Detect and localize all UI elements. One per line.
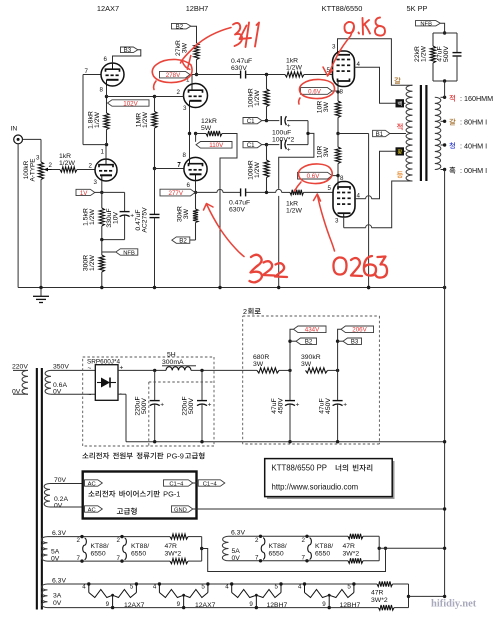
- svg-text:KT88/: KT88/: [91, 543, 109, 550]
- wire NFB tag: [440, 23, 444, 33]
- wire to KT88 lower pin5: [304, 191, 334, 193]
- svg-text:3: 3: [94, 179, 98, 186]
- svg-text:7: 7: [255, 555, 259, 562]
- resistor 12kR 5W: [196, 133, 201, 135]
- svg-text:8: 8: [340, 89, 344, 96]
- resistor 1.5kR 1/2W: [101, 192, 103, 208]
- svg-text:12BH7: 12BH7: [267, 602, 288, 609]
- svg-text:6550: 6550: [315, 551, 330, 558]
- svg-text:7: 7: [77, 555, 81, 562]
- svg-text:12kR: 12kR: [201, 118, 217, 125]
- svg-text:12AX7: 12AX7: [124, 602, 145, 609]
- svg-text:450V: 450V: [325, 398, 332, 414]
- heater KT88 3: [259, 535, 262, 538]
- triode 12BH7b: [184, 157, 207, 180]
- red circle 278V: [152, 59, 192, 89]
- svg-text:390kR: 390kR: [301, 354, 321, 361]
- capacitor 0.47uF AC275V: [150, 213, 160, 215]
- heater winding 6.3V 3A: [42, 584, 48, 608]
- red arrow to 0.6V lower and 0263: [318, 196, 335, 252]
- label 0 ohm: [449, 167, 455, 174]
- capacitor 100uF lower: [267, 144, 280, 146]
- svg-text:C1~4: C1~4: [203, 481, 218, 487]
- svg-text:PG-9: PG-9: [167, 452, 184, 461]
- resistor 10R 3W upper: [337, 92, 339, 101]
- triode 12BH7a: [184, 84, 208, 108]
- node 100uF mid: [306, 132, 309, 135]
- wire plate node: [190, 74, 240, 76]
- ground rail: [18, 287, 445, 289]
- svg-text:KTT88/6550: KTT88/6550: [322, 4, 363, 13]
- red note 0263: [333, 257, 346, 274]
- svg-text:: 80HM I: : 80HM I: [460, 118, 487, 127]
- svg-text:5: 5: [130, 584, 134, 591]
- node ground drop: [367, 286, 370, 289]
- svg-text:+: +: [208, 402, 212, 409]
- tag C1-4 outer: [193, 482, 198, 484]
- wire B2 node up: [290, 329, 294, 370]
- svg-text:5: 5: [201, 584, 205, 591]
- heater rail bottom small: [48, 607, 379, 609]
- PSU rail nodes: [153, 440, 156, 443]
- resistor 30kR 3W: [195, 192, 197, 209]
- svg-text:C1: C1: [247, 142, 255, 149]
- svg-text:~: ~: [88, 365, 92, 372]
- tag B2 supply: [288, 340, 291, 343]
- svg-text:4: 4: [298, 584, 302, 591]
- svg-text:12AX7: 12AX7: [195, 602, 216, 609]
- svg-text:6.3V: 6.3V: [52, 530, 66, 537]
- svg-text:5K PP: 5K PP: [407, 4, 428, 13]
- svg-text:8: 8: [183, 152, 187, 159]
- svg-text:0V: 0V: [54, 502, 63, 509]
- heater rail bottom right: [229, 560, 349, 562]
- svg-text:1/2W: 1/2W: [286, 208, 302, 215]
- node B2 supply: [288, 369, 291, 372]
- svg-text:6: 6: [104, 56, 108, 63]
- red circle 0.6V lower: [295, 164, 333, 191]
- svg-text:1kR: 1kR: [286, 201, 298, 208]
- wire 1MR node down: [154, 169, 156, 215]
- svg-text:6550: 6550: [269, 551, 284, 558]
- node C1 upper: [265, 119, 268, 122]
- svg-text:1/2W: 1/2W: [89, 208, 96, 224]
- svg-text:B2: B2: [305, 339, 313, 346]
- svg-text:5: 5: [347, 584, 351, 591]
- svg-text:3W*2: 3W*2: [343, 551, 360, 558]
- heater KT88 4: [305, 535, 308, 538]
- svg-text:NFB: NFB: [420, 22, 432, 28]
- wire 8ohm tap: [441, 120, 445, 122]
- svg-text:2: 2: [302, 537, 306, 544]
- resistor 100kR 1/2W lower: [266, 145, 268, 160]
- wire 12BH7a plate: [191, 75, 193, 85]
- svg-text:9: 9: [177, 601, 181, 608]
- heater CT right: [378, 536, 380, 561]
- svg-text:0.6V: 0.6V: [308, 88, 322, 95]
- wire 12BH7b bottom: [195, 181, 197, 193]
- tag 206V: [341, 326, 374, 333]
- svg-text:278V: 278V: [166, 72, 181, 79]
- svg-text:3A: 3A: [53, 592, 62, 599]
- svg-text:2: 2: [255, 537, 259, 544]
- svg-text:GND: GND: [174, 507, 187, 513]
- svg-text:206V: 206V: [352, 327, 367, 334]
- node 12BH7b cathode out: [194, 191, 197, 194]
- red circle 0.6V upper: [299, 79, 335, 104]
- svg-text:PG-1: PG-1: [163, 490, 180, 499]
- node SRPP mid: [105, 95, 108, 98]
- label bias grade: [117, 508, 123, 513]
- svg-text:+: +: [287, 147, 291, 154]
- tag NFB lower: [116, 249, 138, 255]
- bridge rectifier SRP600J*4: [95, 365, 118, 401]
- resistor 1MR 1/2W: [154, 97, 156, 112]
- wire B2 to 27kR: [191, 26, 197, 40]
- tap box lower: [396, 147, 405, 155]
- secondary 350V winding: [45, 370, 51, 394]
- svg-text:B1: B1: [376, 131, 384, 138]
- node NFB top: [443, 31, 446, 34]
- tap box upper: [396, 99, 405, 107]
- tag 278V: [160, 71, 191, 78]
- label 8 ohm: [449, 119, 455, 126]
- wire cathode common to ground: [338, 133, 369, 135]
- svg-text:500V: 500V: [188, 398, 195, 414]
- resistor 1kR 1/2W input grid: [60, 167, 77, 172]
- svg-text:3W: 3W: [323, 146, 330, 157]
- svg-text:3W: 3W: [301, 361, 312, 368]
- tag NFB top: [416, 21, 441, 26]
- wire KT88 upper plate: [338, 39, 413, 86]
- tag 0.6V lower: [298, 172, 333, 179]
- node cathode bottom: [100, 238, 103, 241]
- choke 5H 300mA: [166, 367, 191, 371]
- node KT88 lower cathode: [336, 174, 339, 177]
- wire KT88 lower cathode pin8: [337, 176, 339, 182]
- heater 12AX7 2: [158, 582, 161, 585]
- wire B3 node up: [338, 329, 341, 370]
- label bias board: [88, 491, 94, 497]
- label 4 ohm: [449, 142, 455, 149]
- svg-text:350V: 350V: [53, 364, 69, 371]
- resistor 27kR 3W: [196, 40, 198, 43]
- svg-text:http://www.soriaudio.com: http://www.soriaudio.com: [272, 482, 359, 491]
- wire cap to ground rail: [154, 218, 156, 288]
- PG-9 dashed box: [83, 356, 214, 358]
- svg-text:9: 9: [249, 601, 253, 608]
- wire grid link 12AX7b: [83, 74, 101, 76]
- tag 1V: [76, 189, 95, 195]
- svg-text:1/2W: 1/2W: [59, 160, 75, 167]
- svg-text:450V: 450V: [278, 398, 285, 414]
- tag C1-4 inner: [164, 480, 193, 486]
- svg-text:47R: 47R: [343, 543, 356, 550]
- svg-text:3: 3: [335, 218, 339, 225]
- capacitor 47uF 500V NFB: [456, 33, 458, 53]
- wire B+ from bridge: [118, 369, 166, 371]
- wire KT88 lower screen pin4: [355, 198, 366, 200]
- heater rail top left: [48, 536, 171, 538]
- svg-text:6550: 6550: [91, 551, 106, 558]
- svg-text:1/2W: 1/2W: [254, 161, 261, 177]
- svg-text:5: 5: [275, 584, 279, 591]
- svg-text:: 160HMM: : 160HMM: [460, 94, 493, 103]
- wire cap to grid node: [246, 74, 285, 76]
- svg-text:+: +: [130, 213, 134, 220]
- wire to 12BH7b grid pin7: [155, 168, 185, 170]
- capacitor 330uF 10V: [120, 211, 130, 213]
- heater 12BH7 2: [303, 582, 306, 585]
- wire 12AX7a cathode: [101, 180, 103, 192]
- heater rail top small: [48, 583, 378, 585]
- 2-circuit dashed box: [243, 315, 380, 317]
- wire SRPP out: [107, 96, 184, 98]
- svg-text:110V: 110V: [209, 142, 224, 149]
- label PG-9 board: [82, 453, 88, 459]
- wire 12BH7a cathode: [189, 107, 191, 133]
- tag C1 upper: [243, 118, 262, 124]
- input jack IN: [14, 135, 23, 144]
- svg-text:5: 5: [328, 185, 332, 192]
- wire bridge minus: [118, 393, 126, 395]
- svg-text:300mA: 300mA: [162, 359, 184, 366]
- svg-text:4: 4: [82, 584, 86, 591]
- svg-text:KT88/: KT88/: [269, 543, 287, 550]
- resistor 390kR 3W: [306, 368, 328, 373]
- wire jack to pot: [23, 138, 42, 140]
- node 12AX7a plate junction: [105, 143, 108, 146]
- svg-text:630V: 630V: [231, 65, 247, 72]
- svg-text:KTT88/6550 PP: KTT88/6550 PP: [272, 464, 327, 473]
- svg-text:12BH7: 12BH7: [186, 4, 209, 13]
- bias board PG-1: [83, 472, 197, 519]
- svg-text:1/2W: 1/2W: [142, 111, 149, 127]
- svg-text:630V: 630V: [229, 207, 245, 214]
- tag AC bottom: [85, 506, 103, 512]
- PSU bottom rail: [126, 441, 445, 443]
- capacitor 0.47uF 630V lower: [240, 188, 242, 196]
- svg-text:B3: B3: [124, 47, 132, 54]
- wire cap out lower: [246, 191, 276, 193]
- wire 12AX7b cathode: [106, 85, 108, 97]
- svg-text:2: 2: [177, 89, 181, 96]
- ground symbol: [40, 288, 42, 297]
- svg-text:6.3V: 6.3V: [231, 530, 245, 537]
- svg-text:8: 8: [100, 87, 104, 94]
- wire 110V tag stub: [195, 134, 197, 142]
- resistor 100kR 1/2W upper: [266, 75, 268, 90]
- svg-text:3W: 3W: [253, 361, 264, 368]
- red note 0.48: [344, 22, 359, 34]
- svg-text:7: 7: [302, 555, 306, 562]
- tag B2 lower: [172, 237, 190, 243]
- svg-text:: 40HM I: : 40HM I: [460, 141, 487, 150]
- svg-text:12BH7: 12BH7: [340, 602, 361, 609]
- svg-text:500V: 500V: [141, 398, 148, 414]
- heater KT88 2: [120, 535, 123, 538]
- svg-text:+: +: [296, 402, 300, 409]
- info box: [267, 461, 395, 499]
- red arrow to 277V area and 322: [207, 204, 245, 257]
- svg-text:C1~4: C1~4: [169, 481, 184, 487]
- wire 12AX7a plate to node: [105, 145, 107, 159]
- svg-text:47R: 47R: [165, 543, 178, 550]
- resistor 1kR 1/2W lower grid: [290, 190, 304, 195]
- heater 12BH7 1: [230, 582, 233, 585]
- wire B3 to 12AX7b plate pin6: [113, 50, 141, 63]
- svg-text:AC275V: AC275V: [142, 207, 149, 233]
- red note 322: [250, 255, 262, 283]
- svg-text:102V: 102V: [123, 100, 138, 107]
- OPT core: [420, 85, 422, 181]
- svg-text:500V: 500V: [443, 46, 450, 62]
- svg-text:100V*2: 100V*2: [272, 137, 295, 144]
- OPT primary winding: [406, 85, 413, 181]
- svg-text:3W: 3W: [182, 42, 189, 53]
- svg-text:hifidiy.net: hifidiy.net: [431, 599, 477, 610]
- node choke out: [200, 369, 203, 372]
- capacitor 47uF 450V second: [337, 370, 339, 401]
- wire 0ohm tap: [441, 169, 445, 171]
- svg-text:4: 4: [153, 584, 157, 591]
- wire 12kR to down path: [220, 134, 237, 288]
- capacitor 220uF 500V second: [201, 370, 203, 401]
- wire jack ground: [17, 144, 19, 288]
- tag B2 top: [172, 23, 191, 29]
- triode 12AX7b: [101, 63, 124, 86]
- svg-text:7: 7: [177, 162, 181, 169]
- red swoosh to 278V: [181, 28, 232, 64]
- svg-text:2: 2: [49, 162, 53, 169]
- tag 277V: [160, 189, 195, 196]
- heater CT left: [201, 537, 203, 562]
- wire KT88 upper cathode pin8: [337, 87, 339, 97]
- svg-text:3W*2: 3W*2: [371, 597, 388, 604]
- svg-text:220V: 220V: [12, 364, 28, 371]
- svg-text:100uF: 100uF: [272, 130, 291, 137]
- mains primary winding: [13, 369, 28, 371]
- wire 350V to bridge: [51, 369, 95, 371]
- wire choke out: [191, 369, 257, 371]
- bias winding 70V: [44, 484, 50, 508]
- resistor 1.8kR 1/2W: [106, 97, 108, 114]
- capacitor 100uF upper: [267, 120, 280, 122]
- node 12BH7b grid: [153, 167, 156, 170]
- svg-text:434V: 434V: [305, 327, 320, 334]
- tag GND: [172, 506, 193, 512]
- tag 110V: [196, 142, 232, 149]
- svg-text:10V: 10V: [113, 211, 120, 224]
- heater CT small: [408, 584, 410, 608]
- svg-text:70V: 70V: [54, 477, 67, 484]
- heater winding 6.3V 5A right: [222, 536, 228, 561]
- svg-text:AC: AC: [88, 507, 96, 513]
- svg-text:1kR: 1kR: [286, 58, 298, 65]
- resistor 680R 3W: [257, 368, 279, 373]
- node cathode common: [336, 132, 339, 135]
- wire 16ohm tap: [441, 96, 445, 98]
- svg-text:3W: 3W: [323, 101, 330, 112]
- wire 100uF common: [307, 121, 309, 145]
- svg-text:3: 3: [332, 44, 336, 51]
- svg-text:KT88/: KT88/: [131, 543, 149, 550]
- svg-text:2: 2: [77, 537, 81, 544]
- wire KT88 upper screen pin4: [355, 67, 406, 103]
- svg-text:+: +: [343, 402, 347, 409]
- tag 102V: [108, 100, 150, 106]
- resistor 22kR 1/2W NFB: [432, 33, 434, 46]
- red arrow to 0.6V upper: [329, 27, 355, 75]
- OPT secondary winding: [435, 97, 441, 169]
- svg-text:680R: 680R: [253, 354, 269, 361]
- heater rail bottom left: [48, 560, 171, 562]
- svg-text:1/2W: 1/2W: [94, 111, 101, 127]
- wire pot wiper: [52, 169, 61, 171]
- svg-text:2: 2: [89, 163, 93, 170]
- tag 434V: [294, 326, 327, 333]
- svg-text:NFB: NFB: [123, 250, 135, 256]
- svg-text:2: 2: [243, 307, 247, 316]
- svg-text:7: 7: [117, 555, 121, 562]
- svg-text:0.6V: 0.6V: [307, 173, 321, 180]
- capacitor 47uF 450V first: [289, 370, 291, 401]
- node choke in: [153, 369, 156, 372]
- triode 12AX7a: [95, 159, 117, 181]
- svg-text:1: 1: [101, 149, 105, 156]
- svg-text:5W: 5W: [201, 125, 212, 132]
- pentode KT88 lower: [333, 182, 355, 218]
- heater rail top right: [229, 535, 349, 537]
- wire cathode out: [196, 191, 218, 193]
- potentiometer 100kR A-TYPE: [40, 160, 42, 162]
- wire KT88 lower plate: [343, 217, 345, 228]
- node 278V plate: [195, 73, 198, 76]
- wire 12BH7a grid: [155, 96, 184, 98]
- wire NFB loop top: [433, 32, 457, 34]
- wire NFB loop bottom: [433, 80, 457, 82]
- svg-text:1/2W: 1/2W: [254, 89, 261, 105]
- wire NFB inject: [102, 251, 116, 253]
- svg-text:1kR: 1kR: [59, 153, 71, 160]
- capacitor 0.47uF 630V upper: [240, 71, 242, 79]
- node KT88 lower grid: [265, 191, 268, 194]
- svg-text:B3: B3: [351, 339, 359, 346]
- red note 341: [233, 23, 242, 46]
- tag AC top: [85, 480, 103, 486]
- svg-text:3: 3: [183, 105, 187, 112]
- wire to 12AX7a grid pin2: [77, 169, 95, 171]
- svg-text:AC: AC: [88, 481, 96, 487]
- ground rail nodes: [39, 286, 42, 289]
- heater KT88 1: [80, 535, 83, 538]
- svg-text:4: 4: [225, 584, 229, 591]
- svg-text:3W: 3W: [183, 208, 190, 219]
- label brown primary top: [394, 77, 400, 84]
- wire 4ohm tap: [441, 144, 445, 146]
- tag B3 supply: [336, 340, 339, 343]
- svg-text:6.3V: 6.3V: [52, 577, 66, 584]
- svg-text:IN: IN: [11, 126, 18, 133]
- svg-text:277V: 277V: [169, 190, 184, 197]
- wire pot bottom to ground rail: [40, 181, 42, 288]
- svg-text:~: ~: [88, 392, 92, 399]
- svg-text:+: +: [160, 402, 164, 409]
- svg-text:9: 9: [322, 601, 326, 608]
- tag 0.6V upper: [301, 88, 333, 95]
- svg-text:A-TYPE: A-TYPE: [30, 158, 37, 181]
- svg-text:5H: 5H: [167, 352, 176, 359]
